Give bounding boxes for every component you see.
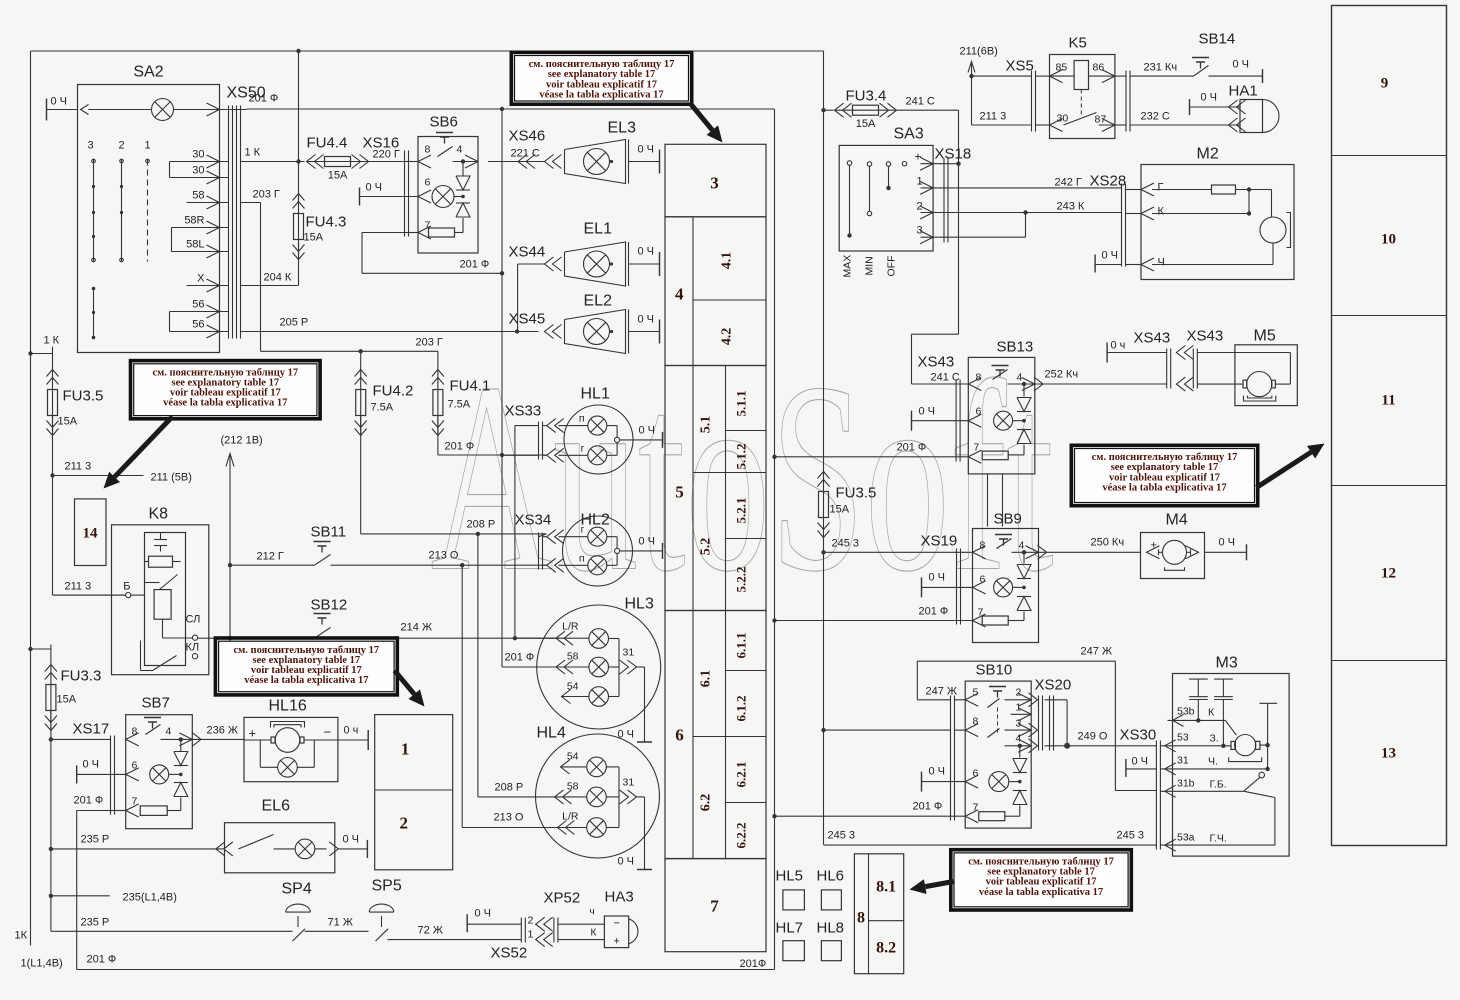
svg-text:0 Ч: 0 Ч [83, 759, 100, 771]
SA2 position line lower [93, 288, 95, 339]
terminal 0Ч M4 [1246, 544, 1248, 560]
terminal 0Ч HL1 [620, 439, 663, 441]
svg-text:3: 3 [917, 225, 923, 237]
svg-text:M2: M2 [1197, 146, 1219, 163]
svg-text:201 Ф: 201 Ф [897, 442, 927, 454]
svg-text:58: 58 [192, 190, 204, 202]
svg-text:3: 3 [87, 140, 93, 152]
K8 capacitor [154, 539, 167, 541]
svg-text:(212 1В): (212 1В) [221, 435, 263, 447]
svg-text:SA3: SA3 [894, 126, 924, 143]
K8 coil [154, 590, 171, 620]
wire 245-3 to SB9 [821, 550, 825, 554]
wire 213-O from SB11 [331, 564, 547, 566]
svg-text:HL5: HL5 [776, 868, 804, 885]
wire 249-O [1045, 699, 1068, 701]
svg-text:+: + [614, 936, 620, 948]
terminal 0Ч M2 [1094, 255, 1096, 273]
svg-text:201 Ф: 201 Ф [74, 795, 104, 807]
wire 241C down to XS18 [958, 110, 960, 164]
terminal 0Ч SB6 [359, 188, 361, 206]
svg-text:3: 3 [710, 174, 719, 193]
lamp EL6 [225, 823, 335, 873]
svg-text:véase la tabla explicativa 17: véase la tabla explicativa 17 [1102, 482, 1226, 493]
svg-text:7.5A: 7.5A [371, 402, 394, 414]
block 8 [854, 854, 903, 974]
wire 211 row to XS5 [972, 75, 1032, 77]
terminal 0Ч SB9 [921, 577, 923, 597]
connector XS43 SB13 [955, 380, 957, 462]
note box 1 [515, 56, 689, 102]
svg-text:212 Г: 212 Г [257, 551, 284, 563]
svg-text:53: 53 [1177, 732, 1189, 744]
svg-text:245 3: 245 3 [832, 538, 860, 550]
wire 245-3 bottom [824, 844, 1157, 846]
svg-text:XS5: XS5 [1006, 58, 1034, 75]
ground 0Ч HL4 [637, 869, 652, 871]
svg-text:211 (5В): 211 (5В) [151, 472, 192, 484]
terminal 0Ч SB14 [1262, 69, 1264, 83]
SB13 diodes [1023, 384, 1025, 397]
wire 236Ж [192, 732, 201, 746]
M3 pin 31 [1165, 763, 1176, 775]
SA2 pin bracket 30-30 [169, 162, 171, 178]
svg-text:0 Ч: 0 Ч [919, 406, 936, 418]
svg-text:0 Ч: 0 Ч [1233, 59, 1250, 71]
relay K5 [1050, 55, 1115, 139]
svg-text:SB7: SB7 [142, 695, 170, 712]
svg-text:6.1: 6.1 [698, 670, 713, 688]
block 1 [375, 715, 453, 870]
wire 245-3 to SB10 pin8 [821, 728, 825, 732]
switch block SB10 [965, 681, 1031, 828]
svg-text:243 К: 243 К [1057, 201, 1085, 213]
M3 pin 53a [1165, 839, 1176, 851]
svg-text:СЛ: СЛ [186, 614, 201, 626]
block 12 [1332, 660, 1447, 662]
svg-text:0 Ч: 0 Ч [639, 536, 656, 548]
wire 201F vertical x775 [774, 109, 776, 970]
wire 252Kч to M5 [1197, 383, 1243, 385]
svg-text:КЛ: КЛ [186, 642, 200, 654]
svg-text:53b: 53b [1177, 706, 1195, 718]
fuse FU3.4 [821, 108, 825, 112]
wire 241C to XS43 [912, 333, 959, 335]
wire 235(L1,4B) stub [51, 895, 110, 897]
lamp EL1 [565, 242, 626, 286]
svg-text:30: 30 [192, 149, 204, 161]
svg-text:1К: 1К [15, 930, 28, 942]
connector SB10 left [950, 696, 952, 821]
svg-text:31: 31 [623, 647, 635, 659]
svg-text:HL2: HL2 [581, 512, 610, 529]
terminal 0Ч HA1 [1189, 99, 1191, 115]
block 4.1 [693, 299, 766, 301]
svg-text:XP52: XP52 [544, 890, 581, 907]
M3 pin 53 [1165, 740, 1176, 752]
svg-text:2: 2 [118, 140, 124, 152]
svg-text:FU3.5: FU3.5 [63, 388, 104, 405]
block 5 section [665, 366, 766, 611]
svg-text:XS44: XS44 [509, 244, 546, 261]
svg-text:201Ф: 201Ф [740, 958, 767, 970]
svg-text:201 Ф: 201 Ф [913, 801, 943, 813]
svg-text:4: 4 [1019, 540, 1025, 552]
svg-text:252 Кч: 252 Кч [1045, 369, 1079, 381]
svg-text:HL16: HL16 [269, 698, 307, 715]
svg-text:211 3: 211 3 [65, 581, 92, 593]
wire 242G [948, 187, 1122, 189]
svg-text:2: 2 [400, 814, 409, 833]
svg-text:X: X [197, 273, 205, 285]
M3 switch [1259, 772, 1265, 778]
SA2 pin bracket 58R-58L [171, 228, 173, 252]
svg-text:58R: 58R [184, 215, 204, 227]
svg-text:5.2.1: 5.2.1 [734, 498, 749, 524]
svg-text:58: 58 [567, 781, 579, 793]
svg-text:З.: З. [1210, 733, 1219, 745]
svg-text:14: 14 [83, 526, 99, 542]
M3 pin 53b [1173, 714, 1184, 726]
svg-text:1: 1 [144, 140, 150, 152]
wire 201F bottom [77, 969, 775, 971]
svg-text:208 Р: 208 Р [495, 782, 524, 794]
svg-text:0 Ч: 0 Ч [1132, 756, 1149, 768]
connector XS5 right [1125, 71, 1127, 132]
svg-text:4.1: 4.1 [720, 252, 735, 270]
M3 motor [1235, 735, 1256, 756]
wire 203G horizontal [261, 350, 438, 352]
svg-text:K8: K8 [149, 506, 169, 523]
svg-text:XS43: XS43 [918, 354, 955, 371]
svg-text:5.2: 5.2 [698, 538, 713, 556]
lamp in SA2 [152, 99, 174, 121]
svg-text:L/R: L/R [562, 621, 579, 633]
svg-text:5: 5 [675, 483, 684, 502]
svg-text:245 3: 245 3 [828, 830, 856, 842]
svg-text:6.1.2: 6.1.2 [734, 696, 749, 722]
svg-text:213 О: 213 О [429, 550, 459, 562]
switch block SB7 [126, 715, 193, 829]
fuse FU4.2 [360, 351, 362, 369]
note box 4 [954, 853, 1128, 907]
svg-text:15A: 15A [830, 504, 850, 516]
svg-text:11: 11 [1381, 393, 1395, 409]
svg-text:15A: 15A [57, 694, 77, 706]
svg-text:201 Ф: 201 Ф [919, 606, 949, 618]
svg-text:201 Ф: 201 Ф [249, 93, 279, 105]
svg-text:К: К [1158, 206, 1165, 218]
block 14 [75, 499, 107, 566]
switch SA3 [839, 145, 933, 251]
svg-text:245 3: 245 3 [1117, 830, 1145, 842]
fuse FU4.1 [437, 351, 439, 369]
svg-text:15A: 15A [304, 232, 324, 244]
lamp cluster HL2 [563, 516, 633, 586]
terminal 0ч M5 wire [1106, 343, 1108, 363]
svg-text:XS43: XS43 [1187, 328, 1224, 345]
M3 capacitor C1 [1189, 678, 1208, 680]
svg-text:8.2: 8.2 [876, 940, 896, 957]
M3 capacitor C2 [1214, 678, 1233, 680]
svg-text:5.1.2: 5.1.2 [734, 444, 749, 470]
svg-text:véase la tabla explicativa 17: véase la tabla explicativa 17 [539, 89, 663, 100]
terminal 0Ч EL2 [629, 331, 660, 333]
svg-text:1: 1 [401, 740, 410, 759]
svg-text:4: 4 [457, 144, 463, 156]
svg-text:7: 7 [425, 220, 431, 232]
block 6.2.1 [726, 802, 767, 804]
svg-text:SB14: SB14 [1199, 31, 1236, 48]
svg-text:31: 31 [623, 777, 635, 789]
svg-text:г: г [581, 443, 585, 455]
svg-text:HL4: HL4 [537, 725, 566, 742]
SB13 stubs down [987, 474, 989, 527]
block 4 cell [665, 217, 766, 366]
svg-text:242 Г: 242 Г [1055, 177, 1082, 189]
svg-text:XS33: XS33 [505, 403, 542, 420]
svg-text:0 Ч: 0 Ч [475, 908, 492, 920]
svg-text:п: п [579, 413, 585, 425]
svg-text:+: + [915, 150, 922, 164]
svg-text:OFF: OFF [886, 256, 898, 277]
svg-text:72 Ж: 72 Ж [418, 925, 443, 937]
svg-text:6: 6 [425, 177, 431, 189]
block column 9-13 [1332, 6, 1447, 846]
lamp block HL16 [244, 717, 338, 781]
svg-text:235 Р: 235 Р [81, 917, 110, 929]
wire 201F from SB6 pin7 [362, 232, 405, 234]
wire 201F FU4.1 to XS33 [438, 454, 547, 456]
svg-text:5.1: 5.1 [698, 416, 713, 434]
block 9 [1332, 155, 1447, 157]
terminal 0Ч XS30 [1125, 759, 1127, 777]
lamp EL2 [565, 310, 626, 354]
svg-text:56: 56 [192, 319, 204, 331]
svg-text:0 Ч: 0 Ч [366, 182, 383, 194]
block 6 section [665, 611, 766, 859]
svg-text:235 Р: 235 Р [81, 834, 110, 846]
svg-text:Г.Ч.: Г.Ч. [1210, 833, 1227, 845]
svg-text:6.2.1: 6.2.1 [734, 762, 749, 788]
svg-text:0 Ч: 0 Ч [1201, 92, 1218, 104]
wire 232C to HA1 [1130, 124, 1240, 126]
wire 204K row [241, 285, 299, 287]
svg-text:208 Р: 208 Р [467, 519, 496, 531]
svg-text:2: 2 [1016, 687, 1022, 699]
fuse FU4.4 [325, 157, 351, 167]
svg-text:56: 56 [192, 299, 204, 311]
K8 resistor [149, 556, 173, 567]
fuse FU4.3 [298, 51, 300, 203]
svg-text:5.2.2: 5.2.2 [734, 567, 749, 593]
wire 208R vertical [477, 534, 479, 797]
svg-text:4: 4 [675, 285, 684, 304]
svg-text:53а: 53а [1177, 832, 1195, 844]
switch block SB6 [418, 137, 478, 254]
block 7 [665, 859, 766, 952]
SB7 diodes [180, 739, 182, 751]
svg-text:247 Ж: 247 Ж [1081, 646, 1113, 658]
svg-text:0 Ч: 0 Ч [343, 834, 360, 846]
svg-text:XS17: XS17 [73, 721, 110, 738]
svg-text:XS18: XS18 [935, 146, 972, 163]
svg-text:FU4.2: FU4.2 [373, 383, 414, 400]
node junction top x298 [296, 49, 300, 53]
svg-text:8: 8 [425, 144, 431, 156]
svg-text:FU3.5: FU3.5 [836, 485, 877, 502]
svg-text:0 Ч: 0 Ч [1102, 250, 1119, 262]
svg-text:MAX: MAX [842, 255, 854, 278]
block 6.1.1 [726, 670, 767, 672]
wire HL1-p down to 214Ж [514, 426, 516, 639]
svg-text:XS46: XS46 [509, 128, 546, 145]
terminal 0Ч EL1 [629, 263, 660, 265]
terminal 0Ч SB7 [76, 765, 78, 783]
svg-text:FU4.3: FU4.3 [306, 214, 347, 231]
svg-text:EL6: EL6 [262, 798, 291, 815]
svg-text:71 Ж: 71 Ж [328, 917, 353, 929]
svg-text:31: 31 [1177, 755, 1189, 767]
motor block M3 [1173, 674, 1290, 857]
node 211-3 junction [50, 473, 54, 477]
svg-text:4: 4 [1017, 372, 1023, 384]
svg-text:XS30: XS30 [1120, 727, 1157, 744]
wire from pin3 [948, 236, 1026, 238]
svg-text:EL3: EL3 [608, 120, 637, 137]
lamp cluster HL3 [537, 605, 661, 729]
svg-text:FU3.4: FU3.4 [846, 88, 887, 105]
svg-text:236 Ж: 236 Ж [207, 725, 239, 737]
svg-text:0 Ч: 0 Ч [638, 246, 655, 258]
svg-text:−: − [614, 918, 620, 930]
svg-text:6.2.2: 6.2.2 [734, 823, 749, 849]
fuse FU3.3 [28, 647, 32, 651]
svg-text:1(L1,4В): 1(L1,4В) [21, 958, 63, 970]
svg-text:6.2: 6.2 [698, 794, 713, 812]
svg-text:SB12: SB12 [311, 597, 348, 614]
wire 243K [948, 212, 1122, 214]
svg-text:SB6: SB6 [430, 114, 458, 131]
SB10 diodes [1019, 746, 1021, 758]
svg-text:8.1: 8.1 [876, 879, 896, 896]
svg-text:Ч.: Ч. [1208, 756, 1218, 768]
block 5.1.1 [726, 430, 767, 432]
svg-text:Г.Б.: Г.Б. [1210, 779, 1227, 791]
svg-text:EL2: EL2 [584, 293, 613, 310]
svg-text:Б: Б [123, 581, 130, 593]
wire 211-3 to 211(5V) [53, 475, 144, 477]
wire 72Ж [388, 939, 522, 941]
svg-text:15A: 15A [328, 170, 348, 182]
svg-text:HL3: HL3 [625, 596, 654, 613]
svg-text:г: г [581, 524, 585, 536]
svg-text:30: 30 [192, 165, 204, 177]
note box 2 [134, 364, 317, 416]
wire 214Ж from SB12 [331, 637, 559, 639]
svg-text:SB9: SB9 [994, 511, 1022, 528]
wire 208R from FU4.2 [361, 533, 478, 535]
svg-text:4.2: 4.2 [720, 328, 735, 346]
svg-text:205 Р: 205 Р [280, 317, 309, 329]
relay K8 [112, 525, 209, 675]
svg-text:SP5: SP5 [372, 878, 402, 895]
svg-text:1 К: 1 К [44, 335, 60, 347]
block 6.1.2 [726, 736, 767, 738]
wire 241C continues down [958, 164, 960, 335]
wire 203G from XS50 [241, 202, 261, 204]
terminal 0Ч EL6 [338, 848, 367, 850]
svg-text:К: К [591, 928, 597, 939]
watermark AutoSoft [431, 326, 1054, 628]
svg-text:13: 13 [1381, 746, 1396, 762]
svg-text:M4: M4 [1166, 512, 1188, 529]
svg-text:SB13: SB13 [997, 339, 1034, 356]
ground 0Ч HL3 [637, 741, 652, 743]
svg-text:250 Кч: 250 Кч [1091, 537, 1125, 549]
svg-text:7: 7 [710, 897, 719, 916]
svg-text:SB11: SB11 [311, 524, 347, 541]
svg-text:241 С: 241 С [931, 372, 960, 384]
svg-text:0 Ч: 0 Ч [929, 572, 946, 584]
wire 247Ж to XS30 [1115, 790, 1156, 792]
svg-text:SP4: SP4 [282, 881, 312, 898]
svg-text:+: + [249, 726, 257, 741]
block 5.2 [693, 472, 726, 474]
svg-text:221 С: 221 С [511, 148, 540, 160]
lamp cluster HL1 [564, 405, 633, 474]
SB6 diode upper [456, 176, 470, 190]
svg-text:5.1.1: 5.1.1 [734, 391, 749, 417]
svg-text:220 Г: 220 Г [373, 149, 400, 161]
svg-text:FU3.3: FU3.3 [61, 668, 102, 685]
switch block SB9 [973, 529, 1039, 643]
svg-text:86: 86 [1093, 62, 1105, 74]
wire 231Kч to SB14 [1130, 75, 1194, 77]
svg-text:п: п [579, 553, 585, 565]
terminal 0Ч EL3 [629, 161, 660, 163]
svg-text:0 Ч: 0 Ч [639, 425, 656, 437]
svg-text:0 Ч: 0 Ч [1219, 537, 1236, 549]
block 10 [1332, 315, 1447, 317]
svg-text:XS19: XS19 [921, 533, 958, 550]
wire top border to FU3.4 [31, 50, 824, 52]
svg-text:Г: Г [1158, 182, 1164, 194]
svg-text:203 Г: 203 Г [253, 189, 280, 201]
M3 pin 31b [1165, 785, 1176, 797]
terminal 0Ч XS52 [466, 914, 468, 932]
svg-text:L/R: L/R [562, 811, 579, 823]
note box 5 [1075, 449, 1255, 503]
svg-text:+: + [1151, 540, 1157, 552]
svg-text:211 3: 211 3 [980, 111, 1007, 123]
svg-text:231 Кч: 231 Кч [1144, 62, 1178, 74]
svg-text:M5: M5 [1254, 328, 1276, 345]
svg-text:HL6: HL6 [817, 868, 845, 885]
svg-text:FU4.1: FU4.1 [450, 378, 491, 395]
svg-text:204 К: 204 К [264, 272, 292, 284]
svg-text:ч: ч [590, 907, 595, 918]
svg-text:M3: M3 [1216, 655, 1238, 672]
terminal 0Ч SB10 [921, 772, 923, 792]
fuse FU3.5 right [819, 492, 829, 518]
svg-text:2: 2 [528, 915, 534, 927]
svg-text:4: 4 [166, 726, 172, 738]
svg-text:véase la tabla explicativa 17: véase la tabla explicativa 17 [979, 887, 1103, 898]
svg-text:FU4.4: FU4.4 [307, 135, 348, 152]
svg-text:0 ч: 0 ч [1111, 340, 1126, 352]
svg-text:201 Ф: 201 Ф [460, 259, 490, 271]
